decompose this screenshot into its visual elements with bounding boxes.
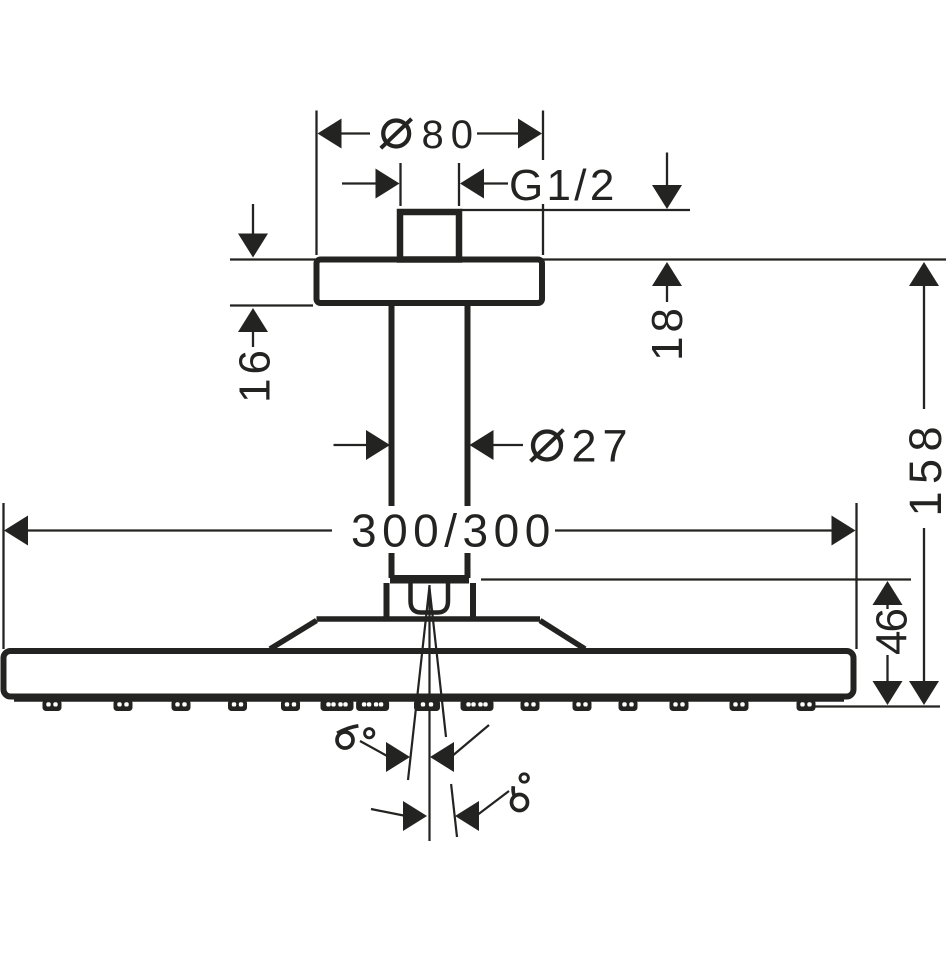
dimension tail 16 lower xyxy=(252,330,254,347)
arrow Ø80 right xyxy=(518,119,542,149)
dimension tail 46 lower xyxy=(886,655,888,683)
cone right diagonal xyxy=(540,621,585,650)
dimension line 300/300 xyxy=(25,529,332,531)
arrow 18 down xyxy=(652,185,682,209)
arrow Ø27 right-pointing xyxy=(366,430,390,460)
nut housing right wall xyxy=(470,583,476,619)
arrow G1/2 left xyxy=(376,169,400,199)
extension line 300/300 right xyxy=(855,503,857,649)
nozzle row xyxy=(43,700,62,712)
arrow 300/300 right xyxy=(832,516,856,546)
extension line flange bottom xyxy=(230,304,313,306)
angle dimension lower 6deg xyxy=(371,791,509,816)
extension line 300/300 left xyxy=(2,503,4,649)
dimension tail 46 upper xyxy=(886,602,888,609)
thread stub G1/2 xyxy=(400,212,459,260)
ceiling flange xyxy=(317,260,543,304)
extension line spray face bottom xyxy=(797,705,940,707)
nozzles xyxy=(43,700,816,712)
pipe left wall xyxy=(389,306,395,578)
svg-text:158: 158 xyxy=(900,419,950,517)
shower head body xyxy=(4,651,854,697)
dimension tail 18 lower xyxy=(666,284,668,302)
label Ø80 diameter symbol xyxy=(381,119,412,148)
pipe right wall xyxy=(465,306,471,578)
dimension line Ø27 left tail xyxy=(334,444,370,446)
pipe end collar (filled) xyxy=(390,575,469,584)
nut housing left wall xyxy=(384,583,390,619)
arrow 16 down xyxy=(238,234,268,258)
extension line Ø80 left xyxy=(315,111,317,256)
svg-text:G1/2: G1/2 xyxy=(509,161,618,210)
label 6deg upper (drawn glyph) xyxy=(337,726,374,748)
arrow 46 up xyxy=(873,581,903,605)
label Ø27 diameter symbol xyxy=(531,430,564,462)
arrow 46 down xyxy=(873,681,903,705)
shower body xyxy=(317,212,543,578)
cone left diagonal xyxy=(270,621,317,650)
svg-text:16: 16 xyxy=(231,346,280,403)
angle dimension upper 6deg xyxy=(360,725,489,757)
extension line Ø80 right xyxy=(542,111,544,161)
tilt line left 6deg xyxy=(408,586,430,780)
arrow Ø80 left xyxy=(318,119,342,149)
svg-text:46: 46 xyxy=(868,610,917,655)
extension line nut bottom (46 ref) xyxy=(481,578,911,580)
extension line stub top (18 ref) xyxy=(461,209,690,211)
arrow Ø27 left-pointing xyxy=(470,430,494,460)
arrowheads xyxy=(4,119,939,706)
svg-text:27: 27 xyxy=(572,421,634,472)
ball joint xyxy=(411,583,449,613)
extension line G1/2 left xyxy=(399,163,401,206)
svg-text:18: 18 xyxy=(643,304,692,361)
arrow 158 down xyxy=(909,681,939,705)
tilt line right 6deg upper segment xyxy=(430,588,447,737)
centre line vertical xyxy=(428,585,430,841)
arrow G1/2 right xyxy=(460,169,484,199)
cone shoulder line xyxy=(317,616,541,622)
dimension tail 18 upper xyxy=(666,153,668,189)
dimension line G1/2 xyxy=(342,182,378,184)
arrow 158 up xyxy=(909,262,939,286)
svg-text:80: 80 xyxy=(422,113,481,157)
extension line flange top (long) xyxy=(230,258,946,260)
arrow 300/300 left xyxy=(4,516,28,546)
spray plate edge xyxy=(14,699,844,702)
extension line G1/2 right xyxy=(458,163,460,206)
tilt line right 6deg lower segment xyxy=(451,784,457,837)
dimension line Ø27 right tail xyxy=(491,444,523,446)
dimension line 158 xyxy=(923,283,925,409)
dimension line Ø80 xyxy=(338,132,370,134)
svg-text:300/300: 300/300 xyxy=(351,505,556,557)
arrow 16 up xyxy=(238,308,268,332)
dimension tail 16 upper xyxy=(252,204,254,236)
arrow 18 up xyxy=(652,262,682,286)
label 6deg lower (drawn glyph) xyxy=(512,774,529,811)
